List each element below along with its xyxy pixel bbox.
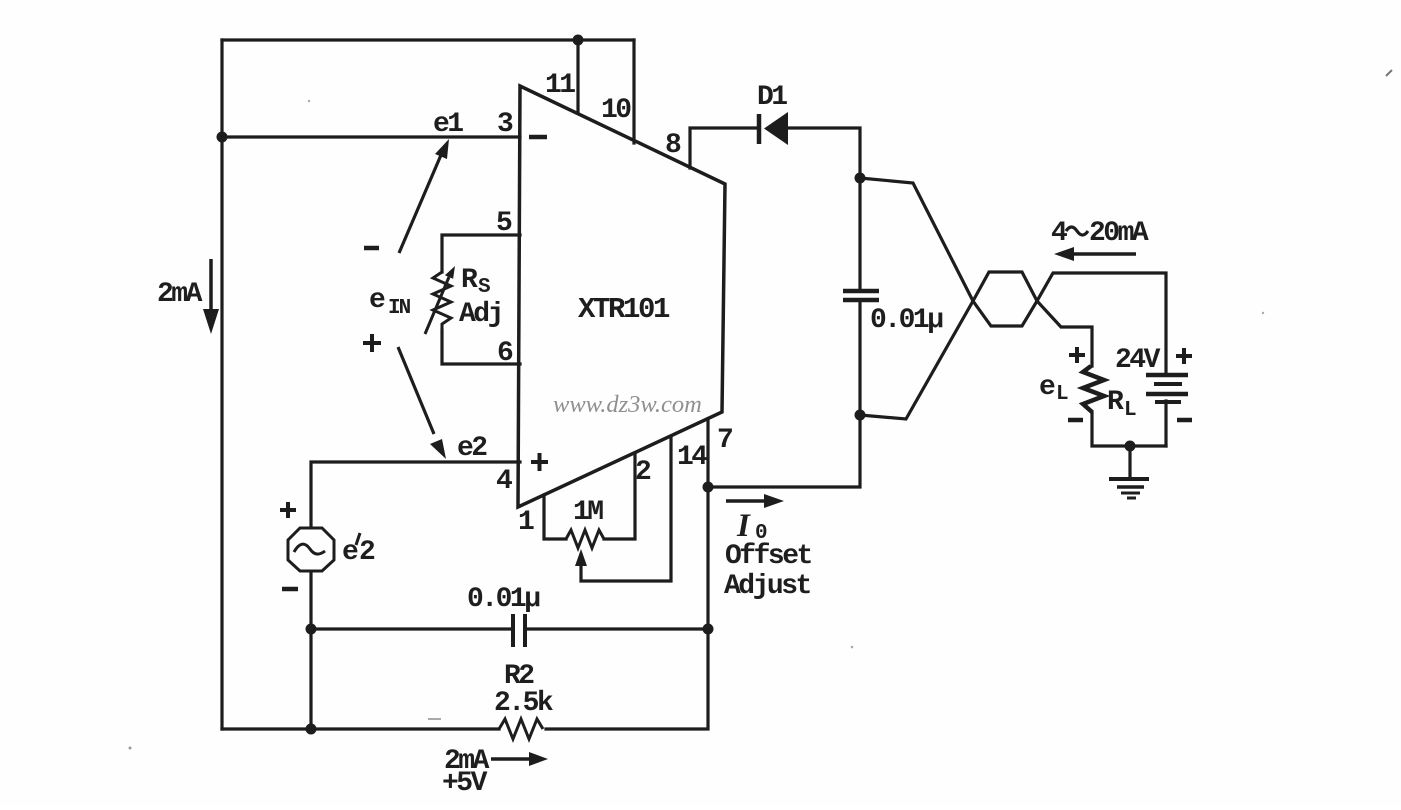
svg-text:e2: e2 [457,433,487,464]
svg-text:L: L [1124,399,1136,422]
scan speck [851,646,854,649]
junction source / bottom cap wire [306,624,317,635]
junction node e1 [217,132,228,143]
plus battery [1176,348,1192,364]
svg-text:www.dz3w.com: www.dz3w.com [553,391,702,418]
capacitor C 0.01u right plates [843,291,879,300]
svg-text:20mA: 20mA [1089,218,1149,249]
minus eIN [364,246,379,251]
source e'2 circle [288,528,334,571]
wire 1M to pin 2 [604,453,635,539]
svg-text:1: 1 [518,507,534,538]
annotation arrow to e2 [398,347,434,434]
wire e1 to pin 3 [222,135,520,138]
svg-text:10: 10 [601,95,631,126]
plus source [280,502,296,518]
annotation arrow to e1 [399,155,441,253]
svg-text:4: 4 [496,466,512,497]
wire pin 4 from e2 [311,462,520,527]
svg-text:e: e [369,285,385,316]
junction pin 11 / top rail [573,35,584,46]
wire pin 1 to 1M [544,495,566,539]
wire source to bottom [309,572,312,729]
scan speck [1262,312,1264,314]
svg-text:0.01μ: 0.01μ [467,584,540,615]
junction pin 7 line / bottom cap wire [703,624,714,635]
wire pin 8 to diode [690,128,759,168]
scan speck [1386,70,1392,76]
resistor R_S Adj zigzag [433,272,451,330]
wire bottom rail right [546,420,708,729]
svg-text:2mA: 2mA [157,279,203,310]
wire pin 10 vertical [632,40,635,143]
junction load / battery / ground [1125,441,1136,452]
wire left vertical [220,40,223,729]
plus eIN [363,334,381,352]
wire pin 5 [442,235,520,272]
svg-text:D1: D1 [757,82,787,113]
op-amp U1 XTR101 body [518,86,725,507]
wire bottom capacitor left [311,627,513,630]
wire twisted pair B [860,272,1092,419]
svg-text:IN: IN [388,297,411,320]
plus RL [1069,347,1085,363]
svg-text:e1: e1 [433,109,463,140]
annotation arrow 4-20mA left [1074,252,1136,256]
svg-text:Adjust: Adjust [724,571,811,602]
junction pin 7 / offset wire [703,482,714,493]
capacitor C 0.01u bottom plates [513,614,525,647]
annotation arrow I0 right [726,499,766,503]
svg-text:R: R [1107,387,1124,418]
minus at pin3 [529,135,547,140]
wire bottom capacitor right [525,627,708,630]
junction diode line / twisted pair upper [855,173,866,184]
wire ground stem [1128,446,1131,478]
scan speck [308,100,310,102]
resistor R2 zigzag [499,719,543,739]
svg-text:8: 8 [665,130,681,161]
junction cap / twisted pair lower [855,410,866,421]
wire cap to lower twist [858,300,861,415]
svg-text:XTR101: XTR101 [578,293,670,326]
ground [1109,477,1149,481]
diode D1 [757,114,762,144]
svg-text:11: 11 [545,70,575,101]
svg-text:7: 7 [717,425,732,456]
scan speck [428,718,441,720]
svg-text:4: 4 [1051,218,1067,249]
plus pin4 [531,453,548,471]
wire bottom rail left [222,727,499,730]
svg-text:24V: 24V [1115,345,1161,376]
svg-text:L: L [1056,383,1068,406]
resistor R_L zigzag [1083,366,1104,412]
battery 24V plates [1146,373,1188,378]
svg-text:2: 2 [635,457,651,488]
svg-text:6: 6 [497,338,513,369]
junction source / bottom rail [306,724,317,735]
svg-text:2.5k: 2.5k [494,688,554,719]
annotation arrow 2mA right bottom [491,757,531,761]
wire battery bottom [1164,401,1167,446]
1M wiper arrow [575,549,587,566]
wire diode to cap top [787,128,860,291]
minus battery [1177,418,1192,423]
annotation arrow 2mA down [209,259,213,311]
source sine [294,544,325,554]
resistor R_S arrow [425,277,449,334]
wire offset horizontal [708,415,860,487]
svg-text:14: 14 [677,442,707,473]
svg-text:1M: 1M [573,497,603,528]
svg-text:I: I [736,508,751,544]
resistor 1M zigzag [566,530,604,548]
svg-text:2: 2 [359,537,375,568]
minus RL [1068,418,1083,423]
svg-text:+5V: +5V [442,768,488,799]
svg-text:Adj: Adj [459,299,502,330]
wire top horizontal [222,38,634,41]
svg-text:5: 5 [496,208,512,239]
wire pin 6 [442,330,520,364]
svg-text:R: R [461,265,478,296]
svg-text:Offset: Offset [725,541,812,572]
scan speck [129,747,132,750]
wire RL bottom [1092,412,1166,446]
wire wiper to pin 14 [581,437,671,581]
svg-text:3: 3 [497,109,513,140]
svg-text:e: e [1039,372,1055,403]
minus source [282,587,298,592]
svg-text:0.01μ: 0.01μ [870,305,943,336]
svg-text:S: S [478,276,490,299]
wire twisted pair A [860,178,1166,375]
wire pin 11 vertical [576,40,579,113]
